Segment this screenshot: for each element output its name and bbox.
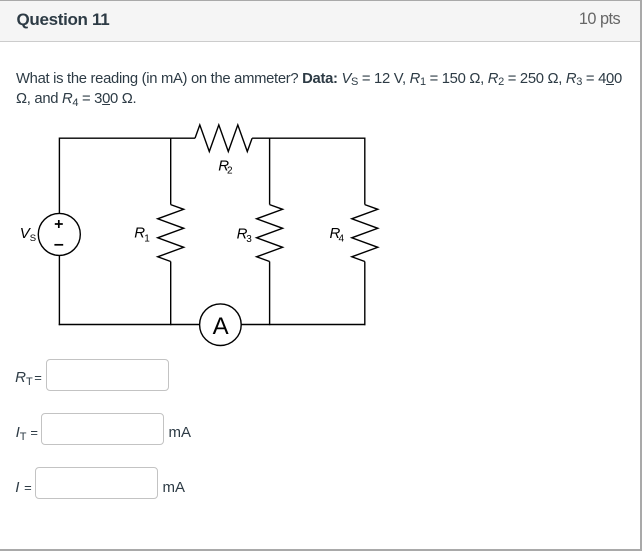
wire R3 branch upper xyxy=(269,138,271,205)
resistor R1 xyxy=(158,205,184,262)
circuit schematic xyxy=(0,110,400,355)
answer row IT xyxy=(16,424,38,441)
wire left rail lower xyxy=(58,255,60,325)
svg-text:A: A xyxy=(213,313,229,340)
wire left rail upper xyxy=(58,138,60,214)
resistor R3 xyxy=(257,205,283,262)
plus terminal mark xyxy=(55,220,63,228)
svg-text:3: 3 xyxy=(246,234,252,245)
wire R1 branch upper xyxy=(170,138,172,205)
wire bottom rail left of ammeter xyxy=(59,324,200,326)
resistor R2 xyxy=(195,125,252,152)
ammeter A xyxy=(200,304,242,346)
svg-text:S: S xyxy=(30,233,36,244)
wire top rail right segment xyxy=(252,137,365,139)
answer row I xyxy=(15,479,31,496)
wire R4 branch lower xyxy=(364,262,366,326)
wire R3 branch lower xyxy=(269,262,271,326)
wire top rail left segment xyxy=(59,137,195,139)
svg-text:2: 2 xyxy=(227,166,233,177)
minus terminal mark xyxy=(54,244,63,246)
svg-text:1: 1 xyxy=(144,233,150,244)
wire R1 branch lower xyxy=(170,262,172,326)
svg-text:4: 4 xyxy=(339,234,345,245)
wire R4 branch upper xyxy=(364,138,366,205)
wire bottom rail right of ammeter xyxy=(241,324,365,326)
answer row RT xyxy=(15,369,42,386)
voltage source VS xyxy=(38,213,80,255)
resistor R4 xyxy=(352,205,378,262)
